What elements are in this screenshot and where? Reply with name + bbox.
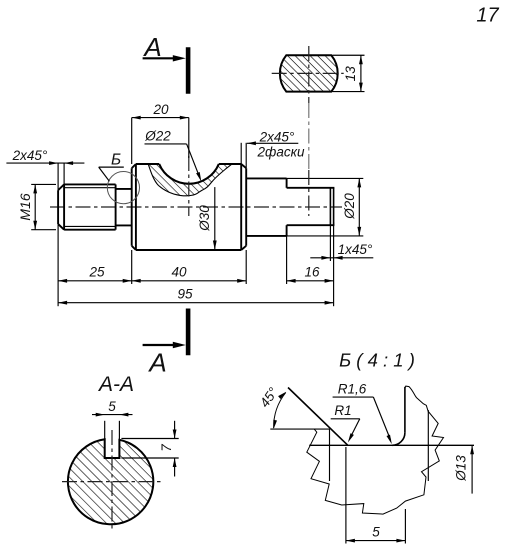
- detail boundary circle B: [107, 172, 139, 204]
- svg-text:95: 95: [177, 287, 193, 302]
- svg-text:2x45°: 2x45°: [259, 129, 295, 144]
- svg-text:1x45°: 1x45°: [338, 242, 373, 257]
- svg-text:17: 17: [476, 5, 499, 27]
- dimension D22 leader: [144, 129, 201, 182]
- svg-text:R1: R1: [334, 403, 351, 418]
- main shaft centerline: [50, 206, 342, 208]
- detail B angle 45 dimension arc: [257, 384, 286, 429]
- cylinder D30 outline: [132, 164, 247, 250]
- dimension 20 recess: [132, 102, 189, 164]
- dimension M16: [17, 184, 56, 229]
- recess break line (outer silhouette): [148, 164, 232, 196]
- recess vertical centerline: [188, 156, 190, 216]
- section plane mark A top: [142, 32, 188, 94]
- detail B right wall: [404, 387, 406, 433]
- dimension 2x45 2 chamfers: [241, 129, 305, 168]
- svg-text:2x45°: 2x45°: [12, 148, 48, 163]
- dimension 40: [132, 265, 247, 283]
- section A-A centerlines: [62, 481, 161, 483]
- section plane mark A bottom: [143, 309, 189, 378]
- dimension 2x45 left chamfer: [6, 148, 84, 165]
- thread minor diameter lines: [64, 187, 116, 189]
- detail B dimension D13: [454, 445, 475, 493]
- cylinder D20 with flats outline: [246, 178, 334, 236]
- svg-text:2фаски: 2фаски: [257, 145, 305, 160]
- dimension 7 keyway depth: [121, 421, 178, 477]
- extension lines bottom: [131, 250, 133, 284]
- cross-section horizontal centerline: [272, 72, 344, 74]
- svg-text:Ø13: Ø13: [454, 455, 469, 482]
- extension lines left end: [57, 163, 59, 190]
- detail B jagged break outline: [307, 386, 444, 514]
- dimension D20: [287, 178, 364, 236]
- svg-text:40: 40: [171, 265, 187, 280]
- detail B dimension 5 groove width: [346, 447, 406, 544]
- svg-text:25: 25: [88, 265, 105, 280]
- detail B horizontal reference line: [270, 428, 329, 430]
- svg-text:Ø22: Ø22: [144, 129, 171, 144]
- detail label B leader: [99, 166, 124, 168]
- dimension 1x45 chamfer: [310, 225, 373, 261]
- dimension 13: [332, 55, 364, 91]
- thread M16 section outline: [58, 184, 116, 229]
- svg-text:13: 13: [343, 66, 358, 82]
- svg-text:А-А: А-А: [97, 373, 134, 396]
- detail B fillet R1.6: [392, 433, 405, 446]
- svg-text:Б: Б: [111, 152, 121, 169]
- svg-text:5: 5: [108, 399, 116, 414]
- detail B groove bottom line (D13 surface): [309, 444, 474, 446]
- svg-text:7: 7: [159, 444, 174, 452]
- cross-section of flat end (width 13): [280, 55, 338, 91]
- detail B R1,6 leader: [333, 382, 392, 445]
- dimension 25: [58, 265, 132, 283]
- dimension D30: [197, 187, 217, 250]
- svg-text:M16: M16: [17, 193, 33, 220]
- detail B R1 leader: [331, 403, 360, 442]
- cross-section vertical centerline / projection line: [308, 46, 310, 103]
- dimension 16: [287, 265, 334, 283]
- detail B broken-out fragment edge: [427, 410, 429, 481]
- svg-text:Ø30: Ø30: [197, 205, 212, 232]
- recess D22 arc: [159, 164, 219, 184]
- thread relief groove: [116, 184, 132, 229]
- detail B groove left wall projection: [329, 429, 331, 481]
- svg-text:Ø20: Ø20: [342, 193, 357, 220]
- dimension 5 keyway width: [92, 399, 133, 440]
- svg-text:Б ( 4 : 1 ): Б ( 4 : 1 ): [339, 350, 415, 371]
- svg-text:А: А: [147, 348, 166, 378]
- detail B chamfer 45 line: [288, 388, 348, 446]
- section A-A circle with keyway slot: [68, 439, 153, 524]
- milled recess D22 hatched local section: [148, 164, 232, 196]
- svg-text:А: А: [142, 32, 161, 62]
- dimension 95: [58, 287, 334, 305]
- svg-text:R1,6: R1,6: [338, 382, 367, 397]
- svg-text:20: 20: [152, 102, 169, 117]
- svg-text:5: 5: [372, 525, 380, 540]
- svg-text:16: 16: [304, 265, 320, 280]
